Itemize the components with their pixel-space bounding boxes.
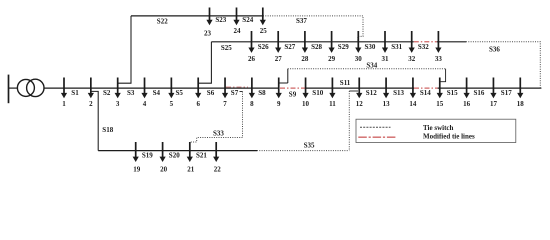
- load arrow node 11: [329, 78, 335, 99]
- svg-text:S6: S6: [207, 89, 215, 97]
- svg-text:31: 31: [382, 55, 390, 63]
- tie switch S34 jog at node 9: [279, 82, 288, 84]
- load arrow node 8: [249, 78, 255, 99]
- tie switch S33 tick at node 8: [240, 91, 243, 93]
- load arrow node 1: [61, 78, 67, 99]
- load arrow node 27: [275, 31, 281, 53]
- svg-text:11: 11: [329, 100, 336, 108]
- grid source bar: [8, 75, 10, 104]
- svg-text:S34: S34: [366, 61, 377, 69]
- svg-text:21: 21: [187, 166, 195, 174]
- load arrow node 10: [302, 78, 308, 99]
- svg-text:20: 20: [160, 166, 168, 174]
- svg-text:30: 30: [355, 55, 363, 63]
- svg-text:28: 28: [301, 55, 309, 63]
- tie switch S35 drop node 12: [348, 91, 350, 151]
- load arrow node 31: [382, 31, 388, 53]
- tie switch S34 riser at node 9: [287, 69, 289, 83]
- load arrow node 26: [248, 31, 254, 53]
- modified tie line branch 9-10: [280, 87, 305, 89]
- svg-text:S12: S12: [366, 89, 377, 97]
- svg-text:S1: S1: [71, 89, 79, 97]
- svg-text:S4: S4: [153, 89, 161, 97]
- tie switch S33 line node 8 to node 21: [190, 92, 243, 143]
- svg-text:S11: S11: [340, 79, 351, 87]
- load arrow node 9: [276, 78, 282, 99]
- svg-text:S28: S28: [311, 43, 322, 51]
- svg-text:S23: S23: [215, 16, 226, 24]
- svg-text:10: 10: [302, 100, 310, 108]
- legend modified tie line sample: [358, 136, 396, 138]
- load arrow node 30: [355, 31, 361, 53]
- wire main feeder nodes 1-9: [44, 87, 279, 89]
- transformer T1 primary winding: [17, 79, 34, 96]
- tie switch S35 jog at node 12: [349, 90, 358, 92]
- load arrow node 4: [141, 78, 147, 99]
- svg-text:S24: S24: [242, 16, 253, 24]
- load arrow node 7: [222, 78, 228, 99]
- svg-text:S3: S3: [127, 89, 135, 97]
- load arrow node 12: [356, 78, 362, 99]
- load arrow node 33: [435, 31, 441, 53]
- load arrow node 25: [260, 8, 266, 26]
- svg-text:S26: S26: [258, 43, 269, 51]
- svg-text:25: 25: [260, 27, 268, 35]
- load arrow node 28: [302, 31, 308, 53]
- svg-text:22: 22: [214, 166, 222, 174]
- svg-text:7: 7: [223, 100, 227, 108]
- svg-text:S25: S25: [221, 44, 232, 52]
- svg-text:5: 5: [170, 100, 174, 108]
- wire riser node 2 to node 19: [91, 91, 99, 150]
- svg-text:S29: S29: [338, 43, 349, 51]
- svg-text:S19: S19: [142, 152, 153, 160]
- load arrow node 3: [115, 78, 121, 99]
- svg-text:S8: S8: [258, 89, 266, 97]
- svg-text:23: 23: [204, 30, 212, 38]
- svg-text:24: 24: [234, 27, 242, 35]
- tie switch S34 drop at node 15: [440, 69, 446, 82]
- svg-text:2: 2: [89, 100, 93, 108]
- svg-text:13: 13: [383, 100, 391, 108]
- svg-text:S10: S10: [312, 89, 323, 97]
- svg-text:9: 9: [277, 100, 281, 108]
- svg-text:S31: S31: [391, 43, 402, 51]
- svg-text:S37: S37: [296, 17, 307, 25]
- svg-text:S7: S7: [231, 89, 239, 97]
- svg-text:Modified tie lines: Modified tie lines: [423, 132, 475, 140]
- wire branch nodes 19-22: [98, 150, 257, 152]
- svg-text:S21: S21: [196, 152, 207, 160]
- wire branch nodes 26-32: [211, 41, 413, 43]
- svg-text:12: 12: [356, 100, 364, 108]
- svg-text:S17: S17: [501, 89, 512, 97]
- wire riser node 3 to node 23: [118, 16, 132, 83]
- wire branch node 33 stub: [437, 41, 466, 43]
- svg-text:S18: S18: [102, 126, 113, 134]
- svg-text:18: 18: [517, 100, 525, 108]
- svg-text:S32: S32: [418, 43, 429, 51]
- load arrow node 13: [383, 78, 389, 99]
- modified tie line branch 32-33: [414, 41, 437, 43]
- modified tie line branch 14-15: [414, 87, 438, 89]
- svg-text:S15: S15: [447, 89, 458, 97]
- load arrow node 5: [168, 78, 174, 99]
- tie switch S35 line node 22 extension: [257, 150, 349, 152]
- modified tie line overlay branch 7-8: [226, 86, 248, 88]
- load arrow node 20: [160, 142, 166, 162]
- load arrow node 6: [195, 78, 201, 99]
- load arrow node 14: [410, 78, 416, 99]
- svg-text:S16: S16: [474, 89, 485, 97]
- svg-text:Tie switch: Tie switch: [423, 124, 454, 132]
- svg-text:S30: S30: [365, 43, 376, 51]
- wire main feeder nodes 15-18 and stub to tie S36: [438, 87, 542, 89]
- load arrow node 24: [233, 8, 239, 26]
- svg-text:S22: S22: [157, 18, 168, 26]
- svg-text:1: 1: [62, 100, 66, 108]
- svg-text:4: 4: [143, 100, 147, 108]
- svg-text:15: 15: [436, 100, 444, 108]
- load arrow node 15: [437, 78, 443, 99]
- wire riser node 6 to node 26: [198, 42, 211, 83]
- svg-text:33: 33: [435, 55, 443, 63]
- svg-text:8: 8: [250, 100, 254, 108]
- svg-text:S5: S5: [176, 89, 184, 97]
- svg-text:S9: S9: [289, 90, 297, 98]
- svg-text:6: 6: [196, 100, 200, 108]
- svg-text:3: 3: [116, 100, 120, 108]
- load arrow node 23: [206, 8, 212, 26]
- wire source to transformer: [9, 87, 18, 89]
- svg-text:14: 14: [409, 100, 417, 108]
- load arrow node 29: [329, 31, 335, 53]
- svg-text:16: 16: [463, 100, 471, 108]
- load arrow node 22: [213, 142, 219, 162]
- svg-text:19: 19: [133, 166, 141, 174]
- svg-text:S14: S14: [420, 89, 431, 97]
- transformer T1 secondary winding: [27, 79, 44, 96]
- tie switch S36 line node 33 to node 18: [466, 42, 540, 88]
- tie switch S34 line node 9 to node 15: [288, 68, 446, 70]
- svg-text:S2: S2: [103, 89, 111, 97]
- load arrow node 16: [464, 78, 470, 99]
- load arrow node 18: [517, 78, 523, 99]
- svg-text:26: 26: [248, 55, 256, 63]
- legend tie switch sample: [360, 126, 391, 128]
- svg-text:32: 32: [408, 55, 416, 63]
- tie switch S37 line node 25 to node 30: [263, 16, 363, 42]
- svg-text:S35: S35: [304, 141, 315, 149]
- svg-text:27: 27: [275, 55, 283, 63]
- svg-text:S20: S20: [169, 152, 180, 160]
- load arrow node 19: [133, 142, 139, 162]
- legend box: [356, 119, 516, 142]
- load arrow node 32: [409, 31, 415, 53]
- svg-text:S33: S33: [213, 130, 224, 138]
- svg-text:S36: S36: [489, 46, 500, 54]
- load arrow node 17: [490, 78, 496, 99]
- svg-text:29: 29: [328, 55, 336, 63]
- load arrow node 21: [187, 142, 193, 162]
- svg-text:S27: S27: [284, 43, 295, 51]
- svg-text:17: 17: [490, 100, 498, 108]
- svg-text:S13: S13: [393, 89, 404, 97]
- wire branch nodes 23-25: [131, 15, 263, 17]
- load arrow node 2: [88, 78, 94, 99]
- wire main feeder nodes 10-14: [305, 87, 414, 89]
